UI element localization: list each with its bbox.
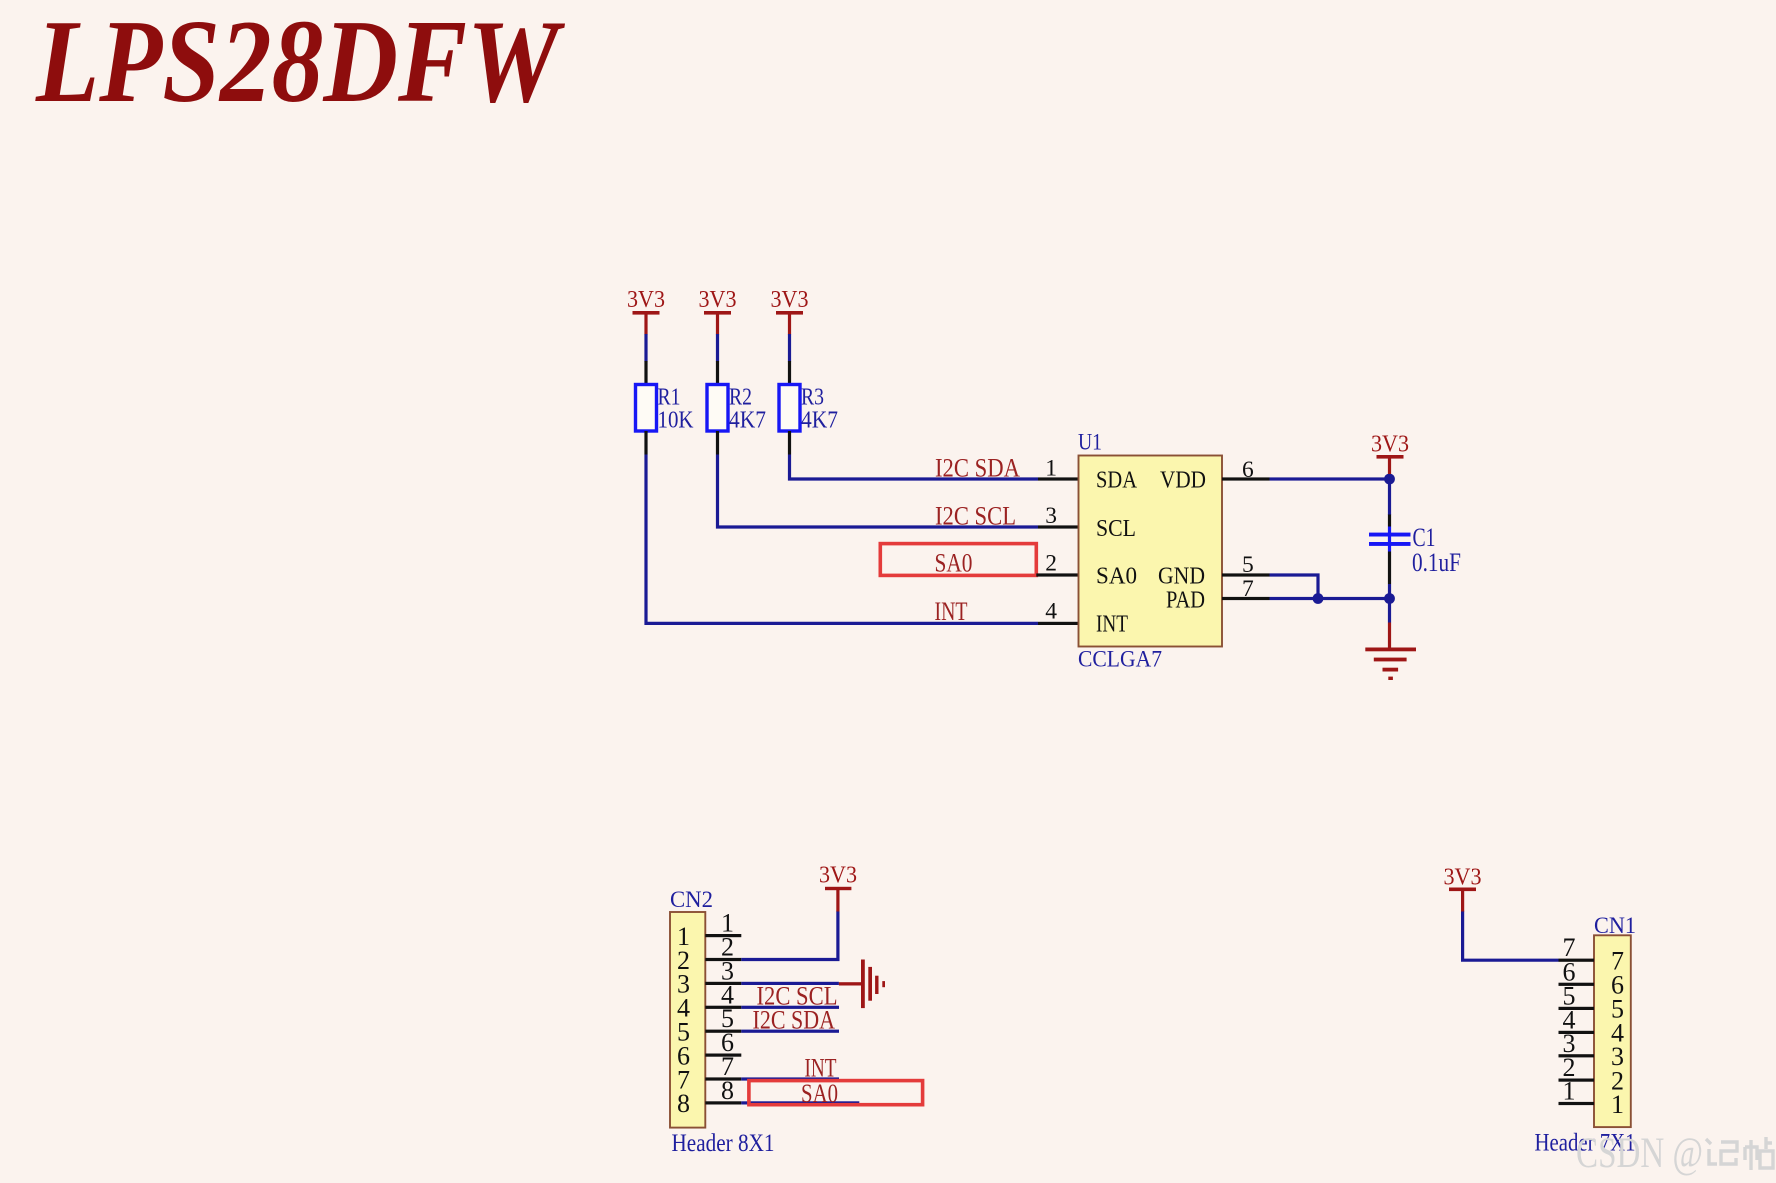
connector CN1 body xyxy=(1535,913,1637,1157)
wire P2 to R2 xyxy=(716,334,719,362)
CN2 pin 2 stub xyxy=(705,933,741,962)
svg-text:INT: INT xyxy=(935,596,968,626)
wire CN1 pin7 to 3V3 xyxy=(1463,911,1559,961)
svg-text:5: 5 xyxy=(1242,552,1254,578)
wire CN2 pin3 xyxy=(741,982,839,985)
power 3V3 P1 xyxy=(627,287,665,335)
svg-text:VDD: VDD xyxy=(1160,467,1206,494)
svg-text:SA0: SA0 xyxy=(1096,563,1137,590)
svg-text:1: 1 xyxy=(1563,1077,1576,1106)
CN1 pin 6 stub xyxy=(1559,957,1595,986)
svg-text:INT: INT xyxy=(1096,611,1128,638)
wire P1 to R1 xyxy=(644,334,647,362)
svg-text:I2C SCL: I2C SCL xyxy=(935,501,1016,531)
CN1 pin 3 stub xyxy=(1559,1029,1595,1058)
junction PAD/cap xyxy=(1384,593,1395,604)
wire CN2 pin7 xyxy=(741,1077,839,1080)
pin R3 top xyxy=(788,361,791,385)
pin C1 bottom xyxy=(1388,552,1391,585)
CN2 pin 5 stub xyxy=(705,1004,741,1033)
wire R3 to SDA net xyxy=(790,455,1039,480)
svg-text:1: 1 xyxy=(1045,456,1057,482)
capacitor C1 xyxy=(1369,523,1461,577)
svg-text:PAD: PAD xyxy=(1166,587,1205,614)
power 3V3 above C1 xyxy=(1371,432,1409,475)
pin 4 INT stub xyxy=(1038,599,1079,626)
wire CN2 pin4 xyxy=(741,1006,839,1009)
pin R1 bottom xyxy=(644,431,647,455)
CN2 pin 4 stub xyxy=(705,980,741,1009)
CN1 pin 7 stub xyxy=(1559,933,1595,962)
pin 1 SDA stub xyxy=(1038,456,1079,482)
svg-text:3V3: 3V3 xyxy=(627,287,665,313)
net label SA0 highlighted xyxy=(880,544,1036,578)
wire GND down to PAD net xyxy=(1270,575,1319,599)
CN2 pin 6 stub xyxy=(705,1028,741,1057)
pin 2 SA0 stub xyxy=(1036,551,1078,577)
wire R1 to INT net xyxy=(646,455,1038,624)
CN2 pin 3 stub xyxy=(705,956,741,985)
CN1 inside pad numbers xyxy=(1611,947,1624,1119)
power 3V3 P3 xyxy=(771,287,809,335)
wire red to ground xyxy=(1388,623,1391,649)
wire junction down to C1 xyxy=(1388,479,1391,515)
wire R2 to SCL net xyxy=(718,455,1039,528)
power 3V3 P2 xyxy=(699,287,737,335)
CN1 pin 5 stub xyxy=(1559,981,1595,1010)
earth ground at CN2 pin3 xyxy=(839,960,885,1009)
wire P3 to R3 xyxy=(788,334,791,362)
CN2 pin 1 stub xyxy=(705,909,741,938)
net label SA0 highlighted at CN2 xyxy=(749,1078,923,1108)
junction GND/PAD xyxy=(1313,593,1324,604)
svg-text:1: 1 xyxy=(1611,1090,1624,1119)
wire VDD to 3V3 node xyxy=(1270,477,1390,480)
CN2 inside pad numbers xyxy=(677,922,690,1118)
svg-text:SA0: SA0 xyxy=(801,1078,838,1108)
resistor R1 xyxy=(636,385,695,434)
IC U1 LPS28DFW xyxy=(1078,430,1222,673)
svg-text:10K: 10K xyxy=(658,408,695,434)
svg-text:6: 6 xyxy=(1242,457,1254,483)
svg-text:GND: GND xyxy=(1158,563,1205,590)
pin R1 top xyxy=(644,361,647,385)
power 3V3 at CN1 xyxy=(1444,865,1482,912)
resistor R2 xyxy=(707,385,766,434)
pin R2 bottom xyxy=(716,431,719,455)
svg-text:SCL: SCL xyxy=(1096,515,1136,542)
svg-text:3: 3 xyxy=(1045,503,1057,529)
pin 5 GND stub xyxy=(1222,552,1270,578)
CN2 pin 7 stub xyxy=(705,1052,741,1081)
wire 3V3 to VDD junction xyxy=(1388,474,1391,479)
svg-text:SDA: SDA xyxy=(1096,467,1137,494)
svg-text:3V3: 3V3 xyxy=(771,287,809,313)
wire PAD to cap column xyxy=(1270,597,1390,600)
svg-text:3V3: 3V3 xyxy=(699,287,737,313)
wire C1 to ground xyxy=(1388,584,1391,623)
resistor R3 xyxy=(779,385,838,434)
svg-text:4K7: 4K7 xyxy=(729,408,766,434)
svg-text:3V3: 3V3 xyxy=(1444,865,1482,891)
svg-text:4K7: 4K7 xyxy=(801,408,838,434)
svg-text:CN1: CN1 xyxy=(1594,913,1636,939)
svg-text:LPS28DFW: LPS28DFW xyxy=(35,0,565,127)
svg-text:7: 7 xyxy=(1242,576,1254,602)
watermark glyph tie xyxy=(1745,1137,1773,1170)
svg-text:2: 2 xyxy=(1045,551,1057,577)
svg-text:SA0: SA0 xyxy=(935,548,973,578)
CN1 pin 1 stub xyxy=(1559,1077,1595,1106)
svg-text:I2C SDA: I2C SDA xyxy=(935,453,1020,483)
pin 6 VDD stub xyxy=(1222,457,1270,483)
svg-text:CCLGA7: CCLGA7 xyxy=(1078,647,1162,673)
svg-text:CSDN @: CSDN @ xyxy=(1576,1130,1703,1177)
svg-text:I2C SDA: I2C SDA xyxy=(753,1005,836,1035)
power 3V3 at CN2 xyxy=(819,863,857,912)
pin R3 bottom xyxy=(788,431,791,455)
svg-text:4: 4 xyxy=(1045,599,1057,625)
svg-text:Header 8X1: Header 8X1 xyxy=(672,1130,775,1157)
watermark CSDN xyxy=(1576,1130,1703,1177)
pin R2 top xyxy=(716,361,719,385)
CN1 pin 4 stub xyxy=(1559,1005,1595,1034)
svg-text:3V3: 3V3 xyxy=(819,863,857,889)
wire CN2 pin5 xyxy=(741,1030,839,1033)
svg-text:U1: U1 xyxy=(1078,430,1102,456)
svg-text:3V3: 3V3 xyxy=(1371,432,1409,458)
junction VDD/3V3 xyxy=(1384,474,1395,485)
wire CN2 pin2 to 3V3 xyxy=(741,911,838,960)
connector CN2 body xyxy=(670,887,775,1157)
CN1 pin 2 stub xyxy=(1559,1053,1595,1082)
pin 3 SCL stub xyxy=(1038,503,1079,529)
wire CN2 pin8 xyxy=(741,1101,859,1104)
ground GND1 xyxy=(1365,648,1416,681)
svg-text:8: 8 xyxy=(677,1089,690,1118)
svg-text:CN2: CN2 xyxy=(670,887,713,913)
watermark glyph ji xyxy=(1706,1139,1737,1164)
pin 7 PAD stub xyxy=(1222,576,1270,602)
pin C1 top xyxy=(1388,515,1391,527)
svg-text:0.1uF: 0.1uF xyxy=(1412,548,1461,577)
svg-text:8: 8 xyxy=(721,1076,734,1105)
CN2 pin 8 stub xyxy=(705,1076,741,1105)
